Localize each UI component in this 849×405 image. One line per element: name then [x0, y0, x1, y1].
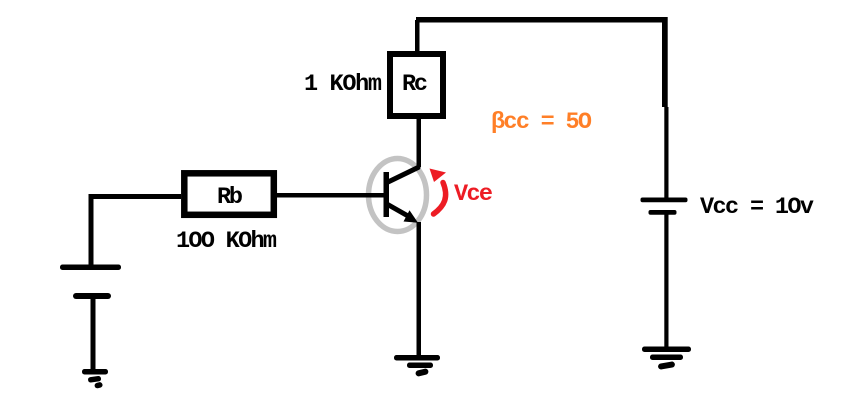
ground emitter bar3 — [415, 368, 429, 377]
svg-text:βcc = 5O: βcc = 5O — [491, 109, 592, 136]
transistor Q1 emitter stroke — [386, 204, 408, 217]
battery Vcc plate short — [649, 210, 677, 215]
battery B1 plate short — [73, 293, 111, 299]
battery B1 plate long — [60, 265, 121, 271]
ground emitter bar1 — [394, 355, 440, 361]
ground left bar1 — [82, 369, 108, 375]
svg-text:Rb: Rb — [217, 184, 243, 211]
transistor Q1 base bar — [384, 172, 390, 217]
wire left battery bottom lead — [91, 298, 96, 372]
wire base lead from Rb — [277, 193, 384, 198]
svg-text:Vcc = 1Ov: Vcc = 1Ov — [700, 194, 814, 221]
wire top rail — [416, 17, 668, 23]
wire Rc bottom lead (collector) — [417, 116, 422, 167]
resistor Rc — [390, 54, 443, 116]
wire left battery top lead — [89, 194, 94, 266]
wire emitter lead down — [417, 222, 422, 358]
annotation Vce arrow arc — [434, 183, 446, 215]
transistor Q1 body circle — [369, 159, 427, 232]
ground right bar1 — [642, 347, 691, 353]
wire right rail upper — [662, 17, 668, 107]
resistor Rb — [184, 173, 273, 215]
svg-text:1OO KOhm: 1OO KOhm — [176, 228, 277, 255]
ground left bar3 — [94, 382, 103, 389]
svg-text:Vce: Vce — [454, 181, 493, 208]
ground right bar2 — [650, 355, 683, 361]
wire right battery bottom lead — [664, 214, 668, 348]
battery Vcc plate long — [641, 198, 688, 203]
svg-text:Rc: Rc — [402, 71, 428, 98]
transistor Q1 collector stroke — [386, 168, 418, 184]
annotation Vce arrowhead — [430, 169, 447, 183]
ground left bar2 — [88, 376, 102, 383]
ground right bar3 — [658, 361, 676, 370]
svg-text:1 KOhm: 1 KOhm — [304, 71, 382, 98]
ground emitter bar2 — [407, 363, 433, 369]
transistor Q1 emitter arrowhead — [404, 210, 419, 223]
wire Rc top lead — [415, 20, 420, 54]
wire Rb left lead — [89, 194, 182, 199]
wire right rail lower — [664, 107, 668, 198]
